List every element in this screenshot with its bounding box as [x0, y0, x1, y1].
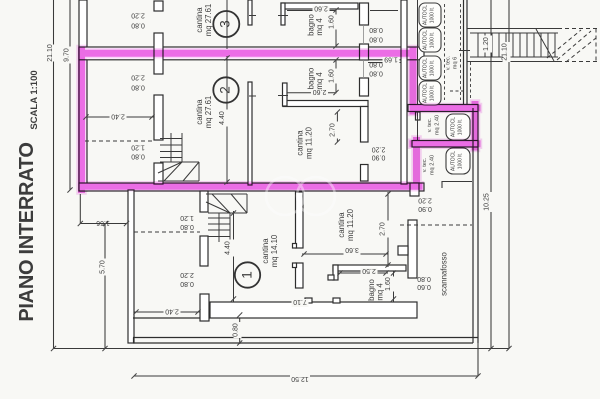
svg-text:4.40: 4.40	[219, 111, 226, 125]
svg-text:0.80: 0.80	[180, 223, 194, 230]
unit 2 dim line 2.70	[336, 112, 338, 142]
svg-text:AUTOCL: AUTOCL	[451, 117, 457, 137]
svg-text:AUTOCL: AUTOCL	[451, 151, 457, 171]
svg-text:mq 4: mq 4	[315, 18, 324, 36]
bagno 3 dim line 2.60	[287, 10, 336, 12]
door label pair H	[418, 197, 432, 213]
svg-text:0.90: 0.90	[418, 205, 432, 212]
bottom tick line (full width)	[54, 348, 510, 350]
svg-text:1.69: 1.69	[384, 56, 398, 63]
svg-text:9.70: 9.70	[64, 48, 71, 62]
bagno 3 top wall	[281, 3, 358, 9]
svg-text:mq 11.20: mq 11.20	[346, 208, 355, 241]
dim 3.60 line unit 1	[302, 253, 388, 255]
bagno 1 left stub	[333, 265, 338, 280]
svg-text:0.80: 0.80	[369, 61, 383, 68]
svg-text:3: 3	[218, 20, 233, 28]
highlight glow	[82, 50, 478, 190]
bagno 1 top wall	[333, 265, 406, 271]
svg-text:10.25: 10.25	[484, 193, 491, 211]
svg-text:0.80: 0.80	[131, 84, 145, 91]
bagno 2 left door stub	[283, 83, 288, 106]
autoclave tank 4	[419, 81, 441, 105]
door arcs	[249, 16, 288, 97]
svg-text:2.20: 2.20	[131, 74, 145, 81]
unit 1 strip dim line 2.40	[134, 311, 200, 313]
dashed line right of tank room	[470, 62, 472, 100]
scannafosso width dim line 0.80	[239, 318, 241, 344]
svg-text:mq 14.10: mq 14.10	[270, 234, 279, 267]
door tick at stair entry	[459, 50, 470, 52]
outer bottom wall lines	[133, 337, 478, 339]
unit 1 left exterior wall	[128, 190, 134, 343]
bagno 1 left stub foot	[328, 275, 334, 280]
tank room left wall line	[417, 0, 419, 104]
wall between cantina 27.61 and cantina 11.20 unit 2	[248, 82, 252, 185]
svg-text:mq 2.40: mq 2.40	[430, 155, 436, 175]
stair-side wall double line	[463, 0, 465, 104]
svg-text:1.20: 1.20	[180, 214, 194, 221]
corridor floor edge line	[133, 317, 210, 319]
dim 2.70 line unit 1	[387, 192, 389, 267]
unit 2 strip dim line 2.40	[86, 116, 154, 118]
interior wall B segment 3	[200, 294, 209, 321]
unit 2 cantina 11.20 right wall lower	[361, 165, 369, 182]
scannafosso outer walls	[133, 108, 478, 343]
svg-text:cantina: cantina	[296, 130, 305, 156]
svg-text:2.70: 2.70	[330, 123, 337, 137]
window line bagno 3	[363, 25, 365, 44]
svg-text:0.90: 0.90	[372, 154, 386, 161]
interior wall A segment 1	[154, 1, 163, 11]
svg-text:21.10: 21.10	[502, 43, 509, 61]
svg-text:1.20: 1.20	[131, 144, 145, 151]
left exterior wall (top block)	[79, 0, 87, 191]
lower v.tec room bottom L wall	[442, 182, 472, 189]
stair top right (common stair)	[467, 29, 597, 63]
unit 1 centre dim line 4.40	[233, 211, 235, 302]
dim 1.60 line bagno 1	[393, 271, 395, 302]
stair unit 1 (internal)	[206, 194, 247, 242]
door label pair E	[180, 271, 194, 287]
bagno 3 right wall lower piece	[360, 44, 369, 60]
svg-text:7.10: 7.10	[293, 298, 307, 305]
svg-text:0.80: 0.80	[369, 36, 383, 43]
svg-text:21.10: 21.10	[47, 44, 54, 62]
svg-text:5.70: 5.70	[100, 260, 107, 274]
bagno 2 dim line 1.60	[335, 60, 337, 93]
svg-text:2.40: 2.40	[111, 113, 125, 120]
door label pair B	[131, 74, 145, 91]
autoclave tank 3	[419, 56, 441, 80]
svg-text:1.60: 1.60	[329, 69, 336, 83]
svg-text:v. tec.: v. tec.	[446, 55, 452, 70]
door jamb stub below v.tec top wall	[416, 112, 421, 120]
interior wall A segment 4 (stair side)	[154, 163, 163, 184]
svg-text:1.60: 1.60	[329, 15, 336, 29]
svg-text:1000 lt.: 1000 lt.	[430, 85, 436, 101]
unit circle 2	[213, 77, 238, 102]
window line bagno 2	[363, 60, 365, 78]
unit circle 1	[235, 262, 260, 287]
svg-text:cantina: cantina	[261, 238, 270, 264]
bagno 3 left stub	[281, 3, 285, 25]
svg-text:v. tec.: v. tec.	[427, 117, 433, 132]
right dimension line 21.10	[508, 0, 510, 349]
door label pair A	[131, 12, 145, 29]
wall C foot lower	[293, 263, 297, 268]
unit circle 3	[213, 11, 239, 37]
stub foot unit 2 b	[278, 95, 288, 97]
window label pair C	[131, 144, 145, 160]
autoclave tank 1	[419, 3, 441, 27]
highlight main stroke: unit 2 boundary	[82, 50, 478, 190]
riser from 1.66 line to wall	[79, 194, 81, 224]
svg-text:mq 27.61: mq 27.61	[204, 96, 213, 129]
svg-text:1000 lt.: 1000 lt.	[458, 153, 464, 169]
dim 1.69 tick line	[368, 62, 401, 64]
scannafosso hidden dashed line	[400, 224, 472, 226]
stub foot unit 2 a	[249, 95, 256, 97]
svg-text:2.20: 2.20	[131, 12, 145, 19]
svg-text:AUTOCL: AUTOCL	[423, 83, 429, 103]
svg-text:2: 2	[218, 86, 233, 94]
bagno 2 bottom wall	[283, 101, 368, 107]
svg-text:2.20: 2.20	[372, 146, 386, 153]
svg-text:0.80: 0.80	[131, 153, 145, 160]
dimension slash ticks	[51, 7, 512, 378]
svg-text:mq 27.61: mq 27.61	[204, 4, 213, 37]
svg-text:PIANO INTERRATO: PIANO INTERRATO	[16, 142, 38, 321]
svg-text:0.80: 0.80	[369, 26, 383, 33]
svg-text:1000 lt.: 1000 lt.	[430, 7, 436, 23]
svg-text:mq 4: mq 4	[315, 72, 324, 90]
bagno 3 right wall upper piece	[360, 3, 369, 25]
svg-text:mq 4: mq 4	[376, 283, 385, 301]
tank column room dashed sides	[445, 4, 461, 100]
unit 2 cantina 11.20 right wall upper	[361, 107, 369, 143]
svg-text:AUTOCL: AUTOCL	[423, 5, 429, 25]
stair break diagonal	[536, 29, 554, 61]
circle digits	[218, 20, 255, 279]
svg-text:2.50: 2.50	[362, 267, 376, 274]
svg-text:1000 lt.: 1000 lt.	[430, 32, 436, 48]
dim tick line unit 3 right	[370, 10, 398, 12]
svg-text:1.66: 1.66	[96, 219, 110, 226]
stub foot unit 3 a	[249, 15, 256, 17]
svg-text:AUTOCL: AUTOCL	[423, 58, 429, 78]
svg-text:0.80: 0.80	[180, 280, 194, 287]
svg-text:1: 1	[240, 271, 255, 279]
svg-text:cantina: cantina	[337, 212, 346, 238]
dimension line 1.66 (horizontal offset)	[80, 223, 126, 225]
svg-text:12.50: 12.50	[291, 375, 309, 382]
wall C foot upper	[293, 244, 297, 249]
autoclave tank upper v.tec	[446, 114, 470, 140]
window label pair I	[417, 275, 431, 290]
stair unit 2 (internal)	[158, 133, 199, 181]
dim 2.50 line bagno 1	[338, 272, 388, 274]
stub foot unit 3 b	[278, 15, 288, 17]
svg-text:mq 11.20: mq 11.20	[305, 126, 314, 159]
svg-text:1.20: 1.20	[483, 37, 490, 51]
svg-text:4.40: 4.40	[225, 241, 232, 255]
interior wall B segment 2	[200, 236, 208, 266]
window label pair D	[180, 214, 194, 230]
interior wall A segment 2	[154, 33, 163, 74]
unit 3 centre dim line 4.40	[226, 0, 228, 49]
svg-text:1000 lt.: 1000 lt.	[458, 119, 464, 135]
window notch 1 in bottom wall	[305, 298, 312, 303]
dimension line 12.50 (bottom)	[134, 343, 478, 376]
bagno 2 dim line 2.60	[287, 92, 337, 94]
svg-text:2.20: 2.20	[418, 197, 432, 204]
svg-text:0.80: 0.80	[233, 323, 240, 337]
interior wall C segment 2	[296, 263, 304, 288]
bagno 2 right wall piece	[360, 78, 369, 96]
label backings	[48, 6, 511, 381]
svg-text:1.60: 1.60	[385, 277, 392, 291]
svg-text:cantina: cantina	[195, 99, 204, 125]
ledge wall left of pier	[398, 246, 408, 255]
autoclave tank lower v.tec	[446, 148, 470, 174]
unit 1 strip dashed line	[134, 231, 200, 233]
svg-text:cantina: cantina	[195, 7, 204, 33]
window notch 2 in bottom wall	[333, 298, 340, 303]
unit 2 strip dashed line	[85, 140, 154, 142]
svg-text:2.20: 2.20	[180, 271, 194, 278]
wall between the two v.tec rooms	[412, 141, 478, 148]
unit 1 right wall pier	[408, 220, 417, 278]
bottom wall of top block	[79, 183, 424, 191]
outer right wall lines	[472, 108, 474, 343]
svg-text:2.40: 2.40	[165, 308, 179, 315]
dimension line 5.70 (lower left)	[104, 224, 106, 349]
dimension line 9.70 (left inner)	[69, 0, 71, 190]
svg-text:mq 2.40: mq 2.40	[435, 115, 441, 135]
svg-text:1000 lt.: 1000 lt.	[430, 60, 436, 76]
svg-text:scannafosso: scannafosso	[440, 251, 449, 295]
svg-text:0.80: 0.80	[131, 22, 145, 29]
unit 2 centre dim line 4.40	[226, 56, 228, 184]
svg-text:0.60: 0.60	[417, 283, 431, 290]
svg-text:2.70: 2.70	[380, 222, 387, 236]
right wall R1 of cantina block	[401, 0, 407, 184]
svg-text:mq 6: mq 6	[453, 57, 459, 69]
svg-text:SCALA 1:100: SCALA 1:100	[29, 70, 40, 129]
svg-text:0.80: 0.80	[417, 275, 431, 282]
window label pair G	[369, 61, 383, 77]
party wall between unit 3 and unit 2	[79, 47, 424, 60]
bagno 3 dim line 1.60	[335, 9, 337, 47]
svg-text:3.60: 3.60	[345, 246, 359, 253]
dimension line 21.10 (left outer)	[53, 0, 55, 349]
autoclave tank 2	[419, 28, 441, 52]
corner stub wall right of bottom wall	[410, 183, 419, 196]
dashed line across tank room	[450, 90, 466, 92]
unit 1 bottom wall	[210, 302, 417, 318]
interior wall B segment 1	[200, 191, 208, 212]
svg-text:0.80: 0.80	[369, 70, 383, 77]
dashed continuation of stair	[547, 29, 597, 63]
interior wall C segment 1	[296, 192, 304, 248]
scanner ghost watermark circles	[266, 177, 335, 215]
svg-text:v. tec.: v. tec.	[422, 157, 428, 172]
right dimension line 1.20/10.25	[490, 0, 492, 349]
svg-text:2.60: 2.60	[314, 5, 328, 12]
window label pair F	[369, 26, 383, 43]
wall stub unit 3	[248, 0, 252, 25]
svg-text:AUTOCL: AUTOCL	[423, 30, 429, 50]
interior wall A segment 3	[154, 95, 163, 140]
wall under magenta, top of v.tec room	[408, 105, 478, 112]
